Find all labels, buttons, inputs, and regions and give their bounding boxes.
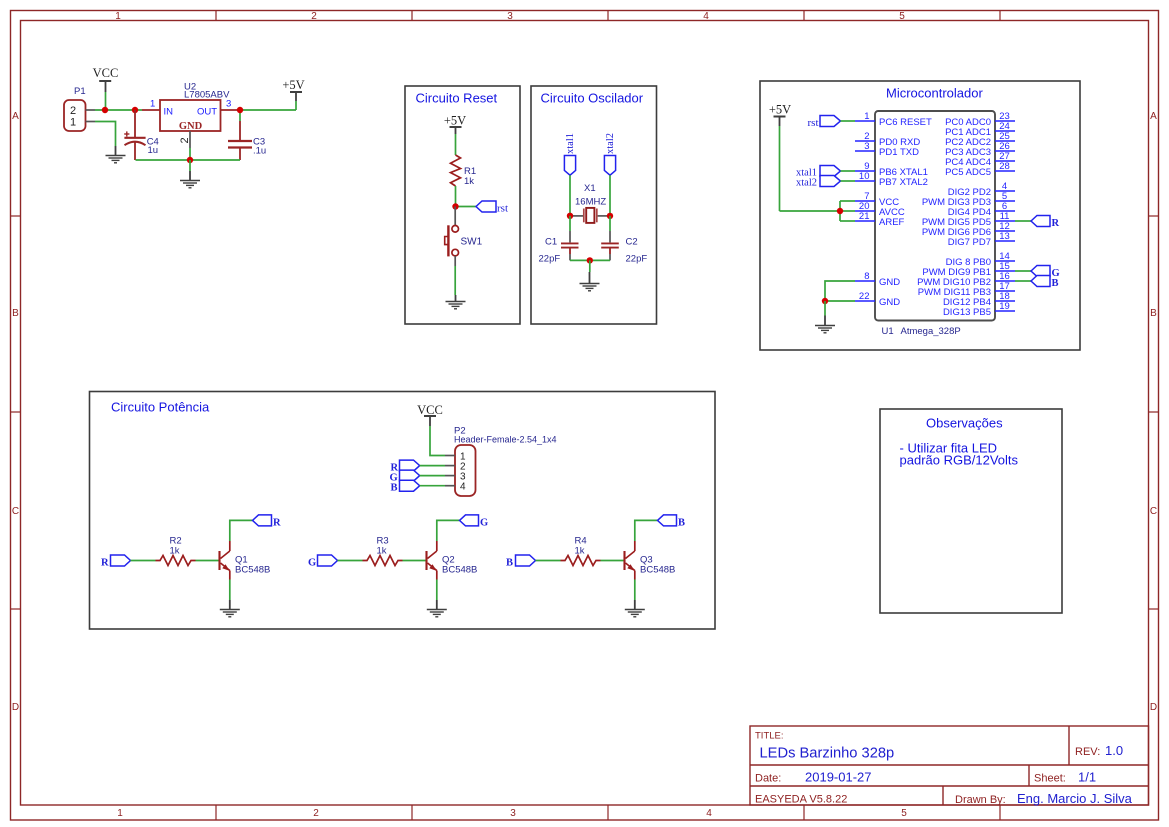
svg-text:GND: GND [179,121,203,132]
wire VCC stem [105,92,107,110]
net flag B (mcu) [1031,276,1050,287]
ground mcu [815,316,835,333]
crystal X1 [570,208,610,223]
svg-text:Circuito Reset: Circuito Reset [416,91,498,106]
svg-text:1k: 1k [377,546,387,557]
svg-text:1k: 1k [464,176,474,187]
net flag B (input Q3) [516,555,536,566]
svg-text:D: D [12,702,19,713]
svg-text:REV:: REV: [1075,746,1100,758]
svg-text:+5V: +5V [444,114,466,128]
P1 pin 2 stub [86,109,96,111]
svg-text:rst: rst [808,117,819,129]
svg-text:B: B [506,558,513,569]
svg-text:IN: IN [164,107,174,118]
svg-text:1: 1 [117,808,123,819]
net flag xtal2 [604,133,615,175]
node junction vcc bracket [837,208,843,214]
svg-text:VCC: VCC [417,403,443,417]
wire osc gnd stem [589,260,591,272]
svg-text:5: 5 [901,808,907,819]
wire P1 pin2 to U2 IN [95,109,142,111]
wire xtal1 to pin9 [841,170,856,172]
wire OUT to +5V [240,109,296,111]
wire node to rst flag [456,206,477,208]
resistor R1 [451,155,461,186]
capacitor C3 [228,121,252,160]
U1 left pin labels [879,117,932,308]
connector P2 [454,426,557,497]
wire pin16 to B flag [1015,280,1031,282]
wire pin15 to G flag [1015,270,1031,272]
svg-text:BC548B: BC548B [235,565,270,576]
svg-text:Sheet:: Sheet: [1034,773,1066,785]
transistor Q2 BC548B [427,541,437,580]
svg-text:4: 4 [706,808,712,819]
wire Q3 emitter down [634,580,636,601]
svg-text:C2: C2 [626,237,638,248]
title block border [750,726,1149,805]
wire R1 to node [455,186,457,207]
svg-text:PB7 XTAL2: PB7 XTAL2 [879,177,928,188]
node junction osc gnd [587,257,593,263]
U2 pin 1 stub [142,109,160,111]
wire B flag to P2 pin4 [420,485,445,487]
svg-text:U1: U1 [882,326,894,337]
frame column ticks bottom [215,805,217,820]
svg-text:22: 22 [859,291,870,302]
net flag R (P2) [400,460,420,471]
svg-text:R: R [273,517,281,528]
net flag B (collector Q3) [658,515,677,526]
wire gnd pin22 [825,300,855,302]
net flag R (collector Q1) [253,515,272,526]
svg-text:AREF: AREF [879,217,905,228]
regulator U2 body [160,82,230,133]
svg-text:X1: X1 [584,183,596,194]
svg-text:3: 3 [510,808,516,819]
net flag rst (reset box) [476,201,496,212]
svg-text:1: 1 [70,117,76,129]
IC U1 body [875,111,995,321]
svg-text:3: 3 [864,141,869,152]
frame row ticks left [11,215,21,217]
ground oscillator [580,272,600,291]
node junction xtal1/X1 [567,213,573,219]
svg-text:L7805ABV: L7805ABV [184,90,230,101]
svg-text:3: 3 [226,99,231,110]
svg-text:G: G [480,517,488,528]
wire pin11 to R flag [1015,220,1031,222]
group box Microcontrolador [760,81,1080,350]
group box Observacoes [880,409,1062,613]
wire Q1 emitter down [229,580,231,601]
svg-text:2: 2 [70,105,76,117]
wire R3 to Q2 base [403,560,426,562]
svg-text:2: 2 [313,808,319,819]
svg-text:GND: GND [879,297,900,308]
power flag +5V (reset) [444,114,466,135]
svg-text:Microcontrolador: Microcontrolador [886,86,983,101]
wire R flag to P2 pin2 [420,465,445,467]
net flag R (mcu) [1031,216,1050,227]
svg-text:1k: 1k [170,546,180,557]
ground under P1 [106,146,126,163]
connector P1 [64,86,86,131]
net flag rst (mcu) [820,116,841,127]
svg-text:xtal2: xtal2 [605,133,616,154]
svg-text:C: C [12,506,19,517]
ground Q3 [625,600,645,617]
capacitor C1 [561,243,579,254]
wire gnd stem mcu [824,301,826,316]
svg-text:22pF: 22pF [539,254,561,265]
svg-text:22pF: 22pF [626,254,648,265]
svg-text:5: 5 [899,11,905,22]
svg-text:2: 2 [311,11,317,22]
U2 pin 3 stub [221,109,241,111]
svg-text:Date:: Date: [755,773,781,785]
svg-text:A: A [12,111,19,122]
wire SW1 to ground [454,256,456,266]
group box Circuito Oscilador [531,86,657,324]
svg-text:R: R [101,558,109,569]
power flag +5V (mcu) [769,103,791,127]
svg-text:padrão RGB/12Volts: padrão RGB/12Volts [900,453,1019,468]
P1 pin 1 stub [86,121,96,123]
U1 left pin stubs and numbers [855,121,875,301]
wire xtal1 node to C1 [569,216,571,231]
node junction gnd rail [187,157,193,163]
svg-text:PC6 RESET: PC6 RESET [879,117,932,128]
net flag R (input Q1) [111,555,131,566]
wire xtal2 down [609,175,611,216]
svg-text:PD1 TXD: PD1 TXD [879,147,919,158]
wire P1 pin1 down [95,122,116,147]
svg-text:28: 28 [999,161,1010,172]
ground Q1 [220,600,240,617]
svg-text:C1: C1 [545,237,557,248]
svg-text:2019-01-27: 2019-01-27 [805,770,872,785]
svg-text:Atmega_328P: Atmega_328P [901,326,961,337]
capacitor C2 [601,243,619,254]
svg-text:PC5 ADC5: PC5 ADC5 [945,167,991,178]
svg-text:Drawn By:: Drawn By: [955,794,1006,806]
group box Circuito Potencia [90,392,716,630]
wire xtal2 node to C2 [609,216,611,231]
wire xtal2 to pin10 [841,180,856,182]
wire G flag to P2 pin3 [420,475,445,477]
svg-text:BC548B: BC548B [442,565,477,576]
wire Q2 emitter down [436,580,438,601]
wire bracket to pin21 [840,220,855,222]
svg-text:+5V: +5V [282,78,304,92]
svg-text:Circuito Potência: Circuito Potência [111,400,210,415]
svg-text:EASYEDA V5.8.22: EASYEDA V5.8.22 [755,794,847,806]
wire bracket to pin20 [840,210,855,212]
svg-text:4: 4 [460,482,466,493]
wire ground rail [136,159,241,161]
transistor Q1 BC548B [220,541,230,580]
resistor R3 1k [363,556,403,566]
wire oscillator gnd rail [570,259,610,261]
svg-text:3: 3 [507,11,513,22]
svg-text:rst: rst [497,203,508,215]
P2 pin stubs [445,456,455,486]
svg-text:Observações: Observações [926,416,1003,431]
U1 right pin labels [917,117,991,318]
svg-text:Eng. Marcio J. Silva: Eng. Marcio J. Silva [1017,791,1133,806]
wire xtal1 down [569,175,571,216]
svg-text:D: D [1150,702,1157,713]
wire gnd pin8 [825,281,855,301]
wire vcc bracket vertical [839,201,841,221]
svg-text:1: 1 [864,111,869,122]
wire below junction [189,160,191,171]
group box Circuito Reset [405,86,520,324]
wire +5V stem [295,101,297,110]
U2 pin 2 stub (GND) [189,131,191,148]
frame row ticks right [1149,215,1159,217]
wire Q2 collector up [437,520,460,541]
node junction OUT [237,107,243,113]
node junction xtal2/X1 [607,213,613,219]
wire +5V down to AVCC row [779,126,781,211]
svg-text:G: G [308,558,316,569]
svg-text:P1: P1 [74,86,86,97]
node junction C4 top [132,107,138,113]
capacitor C4 (polarized) [124,110,145,160]
wire node to SW1 [454,207,456,226]
svg-text:1k: 1k [575,546,585,557]
net flag xtal2 (mcu) [820,176,841,187]
svg-text:21: 21 [859,211,870,222]
wire +5V to R1 [455,134,457,155]
svg-text:10: 10 [859,171,870,182]
power flag VCC (potencia) [417,403,443,426]
svg-text:B: B [1150,308,1157,319]
power flag VCC [93,66,119,92]
net flag B (P2) [400,480,420,491]
svg-text:1: 1 [150,99,155,110]
svg-text:OUT: OUT [197,107,217,118]
svg-text:Header-Female-2.54_1x4: Header-Female-2.54_1x4 [454,435,557,445]
svg-text:.1u: .1u [253,145,266,156]
wire C3 top [239,110,241,121]
title block texts [755,731,1133,807]
ground main [180,171,200,188]
svg-text:xtal1: xtal1 [565,133,576,154]
svg-text:16MHZ: 16MHZ [575,197,606,208]
wire R flag to R2 [131,560,156,562]
U1 right pin stubs and numbers [995,121,1015,311]
wire Q3 collector up [635,520,658,541]
ground Q2 [427,600,447,617]
wire R4 to Q3 base [601,560,624,562]
transistor Q3 BC548B [625,541,635,580]
net flag xtal1 [564,133,575,175]
svg-text:R: R [1052,218,1060,229]
wire Q1 collector up [230,520,253,541]
svg-text:+5V: +5V [769,103,791,117]
svg-text:A: A [1150,111,1157,122]
svg-text:VCC: VCC [93,66,119,80]
resistor R4 1k [561,556,601,566]
svg-text:B: B [12,308,19,319]
resistor R2 1k [156,556,196,566]
svg-text:B: B [678,517,685,528]
net flag G (collector Q2) [460,515,479,526]
svg-text:B: B [1052,278,1059,289]
svg-text:LEDs Barzinho 328p: LEDs Barzinho 328p [760,746,895,762]
svg-text:xtal2: xtal2 [796,178,817,189]
svg-text:1: 1 [115,11,121,22]
svg-text:1u: 1u [148,145,159,156]
svg-text:4: 4 [703,11,709,22]
ground reset [446,295,466,309]
switch SW1 [445,225,459,256]
wire R2 to Q1 base [196,560,219,562]
node junction rst [452,203,458,209]
svg-text:Circuito Oscilador: Circuito Oscilador [541,91,644,106]
svg-text:B: B [391,483,398,494]
net flag G (P2) [400,470,420,481]
wire VCC to P2 pin1 [430,426,445,456]
svg-text:13: 13 [999,231,1010,242]
net flag G (input Q2) [318,555,338,566]
svg-text:BC548B: BC548B [640,565,675,576]
node junction gnd mcu [822,298,828,304]
power flag +5V (supply out) [282,78,304,101]
svg-text:1.0: 1.0 [1105,743,1123,758]
svg-text:TITLE:: TITLE: [755,731,784,742]
svg-text:8: 8 [864,271,869,282]
svg-text:DIG7 PD7: DIG7 PD7 [948,237,991,248]
wire rst to pin1 [841,120,856,122]
wire +5V to vcc bracket [780,210,841,212]
wire G flag to R3 [338,560,363,562]
svg-text:DIG13 PB5: DIG13 PB5 [943,307,991,318]
svg-text:SW1: SW1 [461,236,483,247]
wire U2 gnd [189,148,191,160]
wire bracket to pin7 [840,200,855,202]
svg-text:19: 19 [999,301,1010,312]
svg-text:2: 2 [179,137,191,143]
svg-text:C: C [1150,506,1157,517]
net flag xtal1 (mcu) [820,166,841,177]
net flag G (mcu) [1031,266,1050,277]
node junction P1/VCC [102,107,108,113]
svg-text:GND: GND [879,277,900,288]
svg-text:1/1: 1/1 [1078,770,1096,785]
wire B flag to R4 [536,560,561,562]
